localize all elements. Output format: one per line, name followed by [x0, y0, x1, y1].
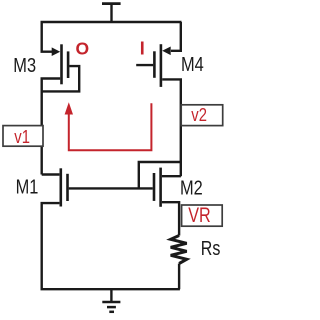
wire right rail drop: [171, 22, 181, 51]
red arrowhead: [65, 102, 73, 114]
wire M1 drain lead: [42, 173, 60, 175]
transistor M3 gate bar: [67, 51, 70, 78]
svg-text:M1: M1: [16, 175, 39, 198]
red annotation path: [69, 103, 152, 150]
wire M4 drain lead to v2 column: [162, 79, 181, 176]
node box v2: [181, 105, 223, 126]
wire M3 source lead arrowhead: [52, 47, 61, 56]
wire resistor bottom lead: [178, 264, 180, 290]
red arrow shaft and U path: [69, 103, 152, 150]
transistor M1 channel bar: [59, 168, 62, 206]
transistor M2 channel bar: [159, 168, 162, 207]
wire M2 drain lead: [162, 175, 181, 177]
transistor M4 channel bar: [160, 44, 163, 87]
wire bottom rail: [41, 288, 180, 290]
transistor M1 gate bar: [66, 174, 69, 201]
svg-text:VR: VR: [188, 203, 210, 227]
supply bar: [102, 2, 121, 5]
ground bars: [102, 302, 120, 312]
svg-text:M2: M2: [180, 176, 203, 199]
transistor M2 gate bar: [153, 173, 156, 201]
wire left rail drop: [42, 22, 53, 52]
wire M4 gate lead: [136, 64, 153, 66]
wire M3 gate loop: [42, 66, 79, 91]
wire M2 source lead to resistor: [162, 202, 179, 235]
transistor M3 channel bar: [60, 44, 63, 84]
transistor M4 gate bar: [153, 51, 156, 78]
wire M4 source lead arrowhead: [162, 47, 171, 56]
ground stub: [110, 289, 112, 301]
wire M1-M2 gate line: [69, 187, 153, 189]
svg-text:O: O: [76, 39, 90, 59]
wire top rail: [41, 21, 182, 23]
node box v1: [3, 126, 43, 147]
svg-text:Rs: Rs: [201, 237, 221, 259]
svg-text:I: I: [140, 39, 145, 59]
wire M1 source lead: [42, 203, 60, 289]
wire M2 gate tie: [139, 162, 181, 188]
svg-text:v2: v2: [191, 105, 207, 126]
svg-text:v1: v1: [14, 126, 30, 147]
svg-text:M3: M3: [13, 53, 36, 76]
resistor Rs zigzag: [171, 236, 187, 264]
supply stub: [110, 4, 112, 22]
svg-text:M4: M4: [181, 52, 204, 75]
wire M3 drain lead: [42, 79, 61, 175]
node box VR: [182, 205, 223, 226]
